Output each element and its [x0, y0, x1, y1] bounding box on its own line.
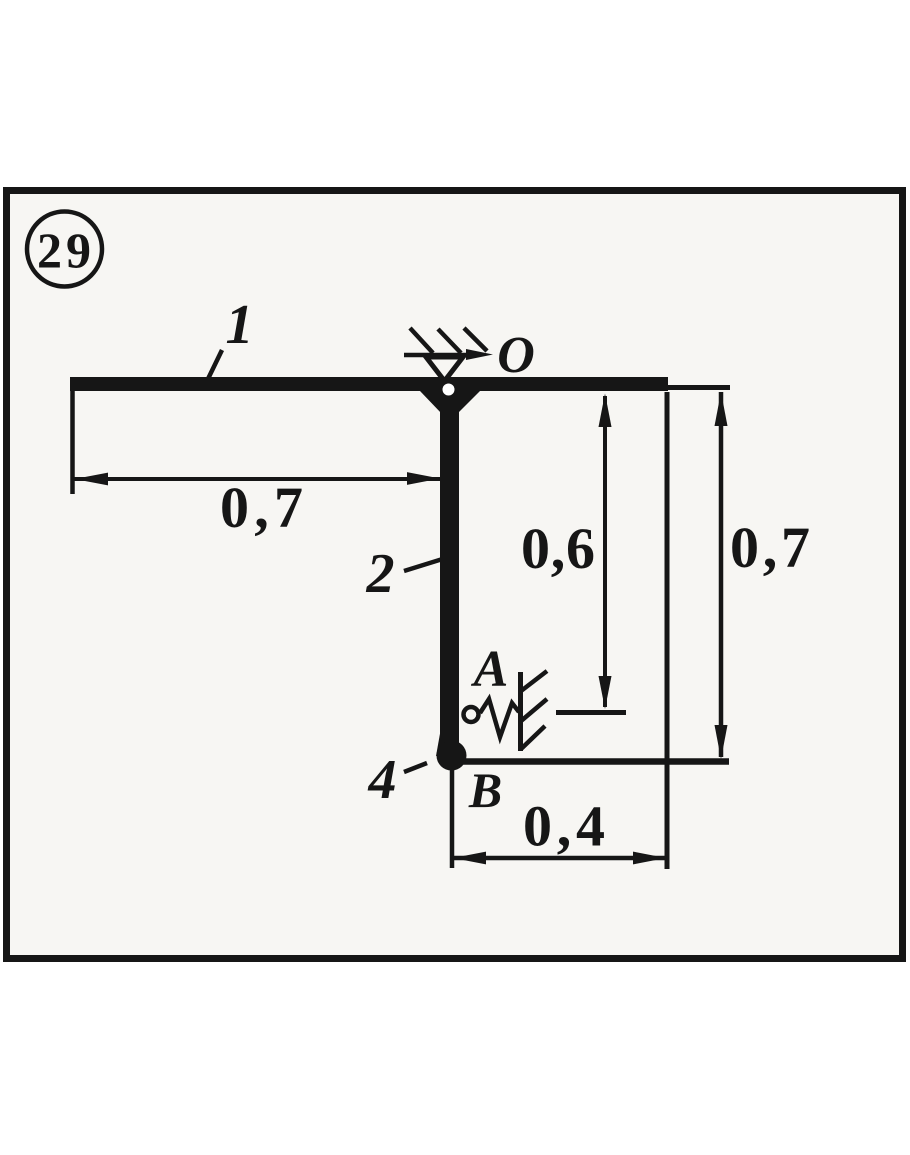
svg-text:4: 4 — [368, 749, 397, 811]
svg-text:0,4: 0,4 — [523, 794, 605, 859]
svg-text:2: 2 — [366, 543, 395, 605]
svg-text:1: 1 — [226, 294, 254, 356]
svg-text:0,7: 0,7 — [220, 475, 303, 540]
svg-text:0,7: 0,7 — [730, 515, 810, 580]
svg-text:A: A — [471, 641, 509, 698]
svg-text:0,6: 0,6 — [521, 516, 595, 581]
svg-text:O: O — [497, 327, 535, 384]
svg-text:B: B — [468, 762, 502, 818]
